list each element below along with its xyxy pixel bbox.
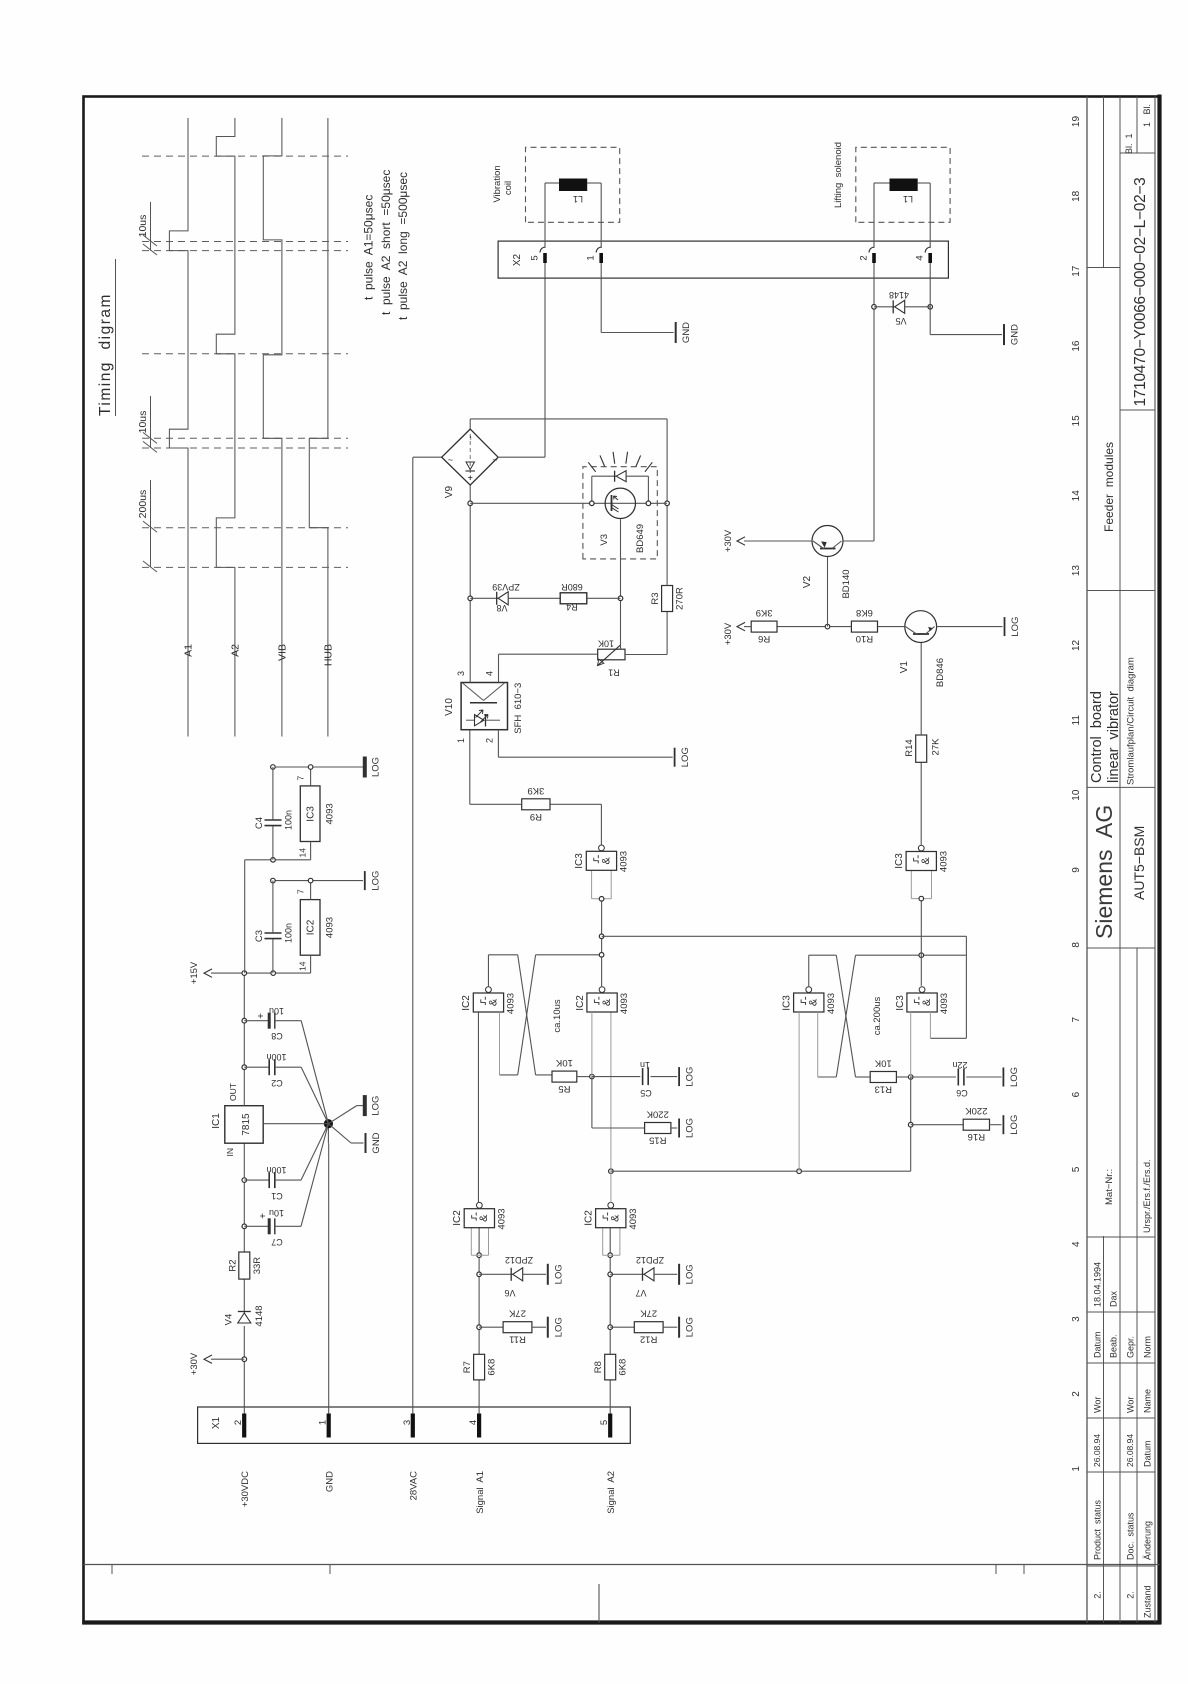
svg-text:IC3: IC3 xyxy=(306,806,317,822)
svg-text:Control board: Control board xyxy=(1089,691,1105,783)
wire RC2 node to G7 input upper xyxy=(910,1012,912,1077)
wire G2 input2 from crossover xyxy=(499,1012,501,1075)
svg-text:27K: 27K xyxy=(640,1308,658,1319)
svg-text:C8: C8 xyxy=(271,1031,283,1041)
wire C7 diagonal to star xyxy=(301,1124,328,1227)
wire R13 to RC junction 2 xyxy=(896,1076,910,1078)
svg-text:~: ~ xyxy=(448,455,453,465)
svg-text:4093: 4093 xyxy=(506,993,517,1014)
svg-text:Bl. 1: Bl. 1 xyxy=(1124,133,1134,154)
capacitor C6 22n to LOG xyxy=(911,1076,956,1078)
svg-text:&: & xyxy=(808,998,820,1006)
svg-text:12: 12 xyxy=(1071,639,1082,651)
svg-text:4093: 4093 xyxy=(325,803,336,824)
potentiometer R1 10K xyxy=(598,649,625,660)
lamp glow rays xyxy=(588,462,595,471)
wire V10 pin4 to R1 top xyxy=(498,654,500,682)
svg-text:IC3: IC3 xyxy=(894,853,905,869)
svg-text:2: 2 xyxy=(1071,1391,1082,1397)
svg-text:OUT: OUT xyxy=(228,1083,238,1101)
svg-text:C7: C7 xyxy=(271,1237,283,1247)
svg-text:200us: 200us xyxy=(137,490,149,519)
svg-text:+30V: +30V xyxy=(723,529,734,552)
svg-text:IC1: IC1 xyxy=(211,1113,222,1129)
nand gate G6 IC3 oscillator2 xyxy=(794,993,824,1012)
wire G7 output to G8 inputs xyxy=(920,899,922,986)
svg-text:6K8: 6K8 xyxy=(618,1359,629,1376)
svg-text:−: − xyxy=(467,435,476,440)
svg-text:GND: GND xyxy=(325,1471,336,1492)
title block column lines xyxy=(1087,1565,1155,1567)
svg-text:+30V: +30V xyxy=(189,1352,200,1375)
svg-text:A2: A2 xyxy=(229,644,241,657)
vibration coil L1 xyxy=(526,147,620,222)
transistor V1 BD846 xyxy=(905,611,937,643)
svg-text:3K9: 3K9 xyxy=(527,785,544,796)
nand gate G2 IC2 oscillator1 xyxy=(473,993,503,1012)
junction C1 tap xyxy=(242,1178,247,1183)
svg-text:LOG: LOG xyxy=(685,1317,696,1337)
capacitor C7 10u xyxy=(244,1225,269,1227)
svg-text:V2: V2 xyxy=(802,575,813,588)
resistor R4 680R xyxy=(560,593,587,604)
svg-text:LOG: LOG xyxy=(370,871,381,891)
svg-text:R5: R5 xyxy=(558,1083,570,1094)
svg-text:IC2: IC2 xyxy=(584,1210,595,1226)
svg-text:6K8: 6K8 xyxy=(487,1359,498,1376)
svg-text:10u: 10u xyxy=(269,1006,284,1016)
wire V1 emitter to LOG xyxy=(937,626,1003,628)
wire G4 output to G2 input xyxy=(477,1012,479,1203)
capacitor C1 100n xyxy=(244,1179,269,1181)
svg-text:4093: 4093 xyxy=(619,851,630,872)
svg-text:Vibration: Vibration xyxy=(492,165,503,202)
svg-text:9: 9 xyxy=(1071,867,1082,873)
svg-text:2: 2 xyxy=(859,255,870,260)
svg-text:+: + xyxy=(466,475,476,480)
svg-text:&: & xyxy=(600,856,612,864)
svg-text:1: 1 xyxy=(318,1420,329,1425)
svg-text:V8: V8 xyxy=(496,603,507,613)
svg-text:4093: 4093 xyxy=(939,993,950,1014)
svg-text:14: 14 xyxy=(298,961,308,971)
svg-text:R4: R4 xyxy=(566,602,578,612)
svg-text:33R: 33R xyxy=(252,1257,263,1275)
svg-text:1710470−Y0066−000−02−L−02−3: 1710470−Y0066−000−02−L−02−3 xyxy=(1132,178,1149,407)
wire Signal A2 xyxy=(609,1380,611,1414)
timing dimension 10us first xyxy=(150,202,152,251)
supply +30V arrow at R6 xyxy=(744,626,751,628)
svg-text:BD846: BD846 xyxy=(935,658,946,687)
nand gate G7 IC3 oscillator2 xyxy=(907,993,937,1012)
voltage regulator IC1 7815 xyxy=(225,1106,263,1144)
svg-text:19: 19 xyxy=(1071,116,1082,128)
svg-text:~: ~ xyxy=(492,455,497,465)
ground GND X2 pin1 xyxy=(675,322,677,343)
svg-text:Mat−Nr.:: Mat−Nr.: xyxy=(1104,1169,1115,1205)
capacitor C2 100n xyxy=(244,1066,269,1068)
wire V10 pin2 to LOG xyxy=(497,730,499,758)
svg-text:C1: C1 xyxy=(271,1191,283,1201)
zener diode V7 ZPD12 to LOG xyxy=(610,1273,644,1275)
svg-text:Wor: Wor xyxy=(1093,1397,1103,1413)
svg-text:4093: 4093 xyxy=(826,993,837,1014)
nand gate G4 IC2 (signal A1 input) xyxy=(471,1254,488,1256)
svg-text:R16: R16 xyxy=(968,1131,985,1142)
svg-text:R7: R7 xyxy=(462,1361,473,1373)
svg-text:LOG: LOG xyxy=(685,1118,696,1138)
svg-text:C4: C4 xyxy=(254,817,265,829)
svg-text:GND: GND xyxy=(681,322,692,343)
wire vibration coil to X2 pin1 xyxy=(587,182,601,184)
zener diode V6 ZPD12 to LOG xyxy=(479,1273,513,1275)
svg-text:27K: 27K xyxy=(508,1308,526,1319)
lifting solenoid L1 xyxy=(856,147,950,222)
svg-text:18.04.1994: 18.04.1994 xyxy=(1093,1262,1103,1307)
svg-text:28VAC: 28VAC xyxy=(409,1471,420,1501)
bypass diode across V3 xyxy=(591,476,593,503)
wire GND line X1.1 to star xyxy=(328,1143,330,1413)
wire X2 pin1 to GND xyxy=(600,278,602,332)
connector X2 pin contacts xyxy=(544,263,546,278)
timing signal A1 xyxy=(169,118,188,737)
wire bridge E vertex to drop xyxy=(469,419,471,429)
svg-text:1: 1 xyxy=(586,255,597,260)
svg-text:R10: R10 xyxy=(856,633,873,644)
svg-text:LOG: LOG xyxy=(680,747,691,767)
svg-text:13: 13 xyxy=(1071,565,1082,577)
wire bridge right vertex drop xyxy=(470,418,667,420)
svg-text:&: & xyxy=(920,857,932,865)
svg-text:2: 2 xyxy=(485,738,495,743)
svg-text:Norm: Norm xyxy=(1143,1336,1153,1358)
svg-text:LOG: LOG xyxy=(553,1317,564,1337)
svg-text:Lifting solenoid: Lifting solenoid xyxy=(833,142,844,208)
wire X2 pin2 to lifting solenoid xyxy=(873,183,875,248)
svg-text:ZPV39: ZPV39 xyxy=(492,582,520,592)
ground LOG IC2 pin7 xyxy=(364,871,366,890)
bridge rectifier V9 xyxy=(442,429,498,485)
wire +30V rail xyxy=(243,1326,245,1414)
svg-text:4093: 4093 xyxy=(325,917,336,938)
svg-text:Änderung: Änderung xyxy=(1143,1521,1153,1560)
timing signal A2 xyxy=(216,118,235,737)
wire R4 to emitter junction xyxy=(587,597,621,599)
svg-text:100n: 100n xyxy=(266,1165,286,1175)
wire G6 input1 from G5 line xyxy=(798,1012,800,1171)
svg-text:LOG: LOG xyxy=(685,1264,696,1284)
wire lifting solenoid to X2 pin4 xyxy=(918,182,931,184)
wire G1 output to R9 xyxy=(600,804,602,844)
svg-text:Siemens AG: Siemens AG xyxy=(1091,805,1117,939)
svg-text:10u: 10u xyxy=(269,1208,284,1218)
svg-text:HUB: HUB xyxy=(322,644,334,666)
svg-text:V7: V7 xyxy=(635,1288,646,1298)
IC power block IC2 4093 pins 14/7 xyxy=(300,900,320,956)
svg-text:4: 4 xyxy=(915,255,926,260)
wire X2 pin2 line xyxy=(873,278,875,307)
svg-text:5: 5 xyxy=(599,1420,610,1425)
crossover diagonal wires osc2 xyxy=(836,955,855,1077)
wire G6 input2 from crossover xyxy=(817,1012,819,1077)
capacitor C8 10u xyxy=(244,1020,269,1022)
svg-text:C6: C6 xyxy=(956,1088,968,1098)
wire IC1 OUT +15V rail xyxy=(243,973,245,1106)
connector X2 box xyxy=(498,241,948,278)
svg-text:5: 5 xyxy=(530,255,541,260)
svg-text:LOG: LOG xyxy=(1009,1067,1020,1087)
svg-text:Datum: Datum xyxy=(1143,1440,1153,1467)
nand gate G5 IC2 (signal A2 input) xyxy=(603,1254,620,1256)
ground star point xyxy=(327,1124,329,1144)
svg-text:Product status: Product status xyxy=(1093,1499,1103,1560)
svg-text:2.: 2. xyxy=(1093,1591,1103,1599)
svg-text:+30VDC: +30VDC xyxy=(240,1471,251,1507)
svg-text:10us: 10us xyxy=(137,411,149,434)
wire R5 to RC junction xyxy=(577,1076,592,1078)
wire RC node to G3 input upper xyxy=(591,1012,593,1077)
ground LOG at star xyxy=(328,1106,356,1124)
wire junction to G3 input lower xyxy=(610,1012,612,1203)
svg-text:V5: V5 xyxy=(895,316,906,326)
svg-text:26.08.94: 26.08.94 xyxy=(1092,1434,1102,1467)
svg-text:IC3: IC3 xyxy=(895,995,906,1011)
svg-text:ca.200us: ca.200us xyxy=(872,996,883,1035)
supply +15V arrow and feed line xyxy=(211,972,311,974)
svg-text:C3: C3 xyxy=(254,930,265,942)
ground GND X2 pin4 xyxy=(1003,324,1005,345)
svg-text:R15: R15 xyxy=(649,1135,666,1146)
resistor R12 27K to LOG xyxy=(610,1326,634,1328)
svg-text:coil: coil xyxy=(503,181,514,195)
svg-text:R13: R13 xyxy=(875,1084,892,1095)
frame bottom thin line xyxy=(1154,97,1156,1623)
svg-text:X1: X1 xyxy=(211,1416,222,1429)
svg-text:4: 4 xyxy=(1071,1241,1082,1247)
resistor R7 6K8 xyxy=(474,1354,485,1380)
svg-text:t pulse A2 long =500μsec: t pulse A2 long =500μsec xyxy=(396,172,410,320)
svg-text:LOG: LOG xyxy=(370,1096,381,1116)
svg-text:2.: 2. xyxy=(1126,1591,1136,1599)
resistor R8 6K8 xyxy=(605,1354,616,1380)
svg-text:IC2: IC2 xyxy=(575,995,586,1011)
svg-text:Feeder modules: Feeder modules xyxy=(1102,442,1116,532)
resistor R2 33R xyxy=(239,1252,250,1279)
svg-text:4093: 4093 xyxy=(497,1208,508,1229)
svg-text:22n: 22n xyxy=(952,1060,967,1070)
svg-text:4148: 4148 xyxy=(889,290,909,300)
wire G8 output to R14 xyxy=(920,762,922,845)
svg-text:4093: 4093 xyxy=(938,851,949,872)
wire X2 pin4 to GND xyxy=(929,278,931,335)
svg-text:100n: 100n xyxy=(284,810,294,830)
svg-text:V4: V4 xyxy=(224,1314,235,1326)
resistor R11 27K to LOG xyxy=(479,1326,503,1328)
svg-text:ZPD12: ZPD12 xyxy=(505,1255,533,1265)
svg-text:10K: 10K xyxy=(555,1057,573,1068)
wire V2 collector to X2 pin2 line xyxy=(843,540,874,542)
svg-text:15: 15 xyxy=(1071,415,1082,427)
svg-text:ZPD12: ZPD12 xyxy=(636,1255,664,1265)
svg-text:Dax: Dax xyxy=(1109,1290,1119,1307)
svg-text:8: 8 xyxy=(1071,942,1082,948)
wire G5 output to junction xyxy=(609,1169,614,1174)
svg-text:220K: 220K xyxy=(965,1105,988,1116)
svg-text:IC2: IC2 xyxy=(306,919,317,935)
svg-text:R14: R14 xyxy=(904,739,915,756)
svg-text:AUT5−BSM: AUT5−BSM xyxy=(1131,826,1147,900)
svg-text:&: & xyxy=(921,998,933,1006)
timing signal HUB xyxy=(309,118,328,737)
wire IC2 pin7 to LOG xyxy=(310,881,312,900)
diode V4 4148 xyxy=(238,1313,251,1323)
svg-text:680R: 680R xyxy=(561,582,583,592)
svg-text:R12: R12 xyxy=(640,1334,657,1345)
connector X1 pins with terminal bars xyxy=(242,1414,246,1438)
svg-text:1n: 1n xyxy=(640,1060,650,1070)
svg-text:L1: L1 xyxy=(903,194,913,204)
svg-text:7815: 7815 xyxy=(241,1113,252,1136)
svg-text:+15V: +15V xyxy=(189,961,200,984)
resistor R16 220K to LOG xyxy=(911,1124,964,1126)
svg-text:Signal A1: Signal A1 xyxy=(475,1471,486,1514)
svg-text:GND: GND xyxy=(371,1132,382,1153)
svg-text:14: 14 xyxy=(1071,490,1082,502)
svg-text:1: 1 xyxy=(456,738,466,743)
wire G5 line to RC2 node xyxy=(910,1077,912,1171)
svg-text:11: 11 xyxy=(1071,715,1082,726)
svg-text:1: 1 xyxy=(1071,1466,1082,1472)
svg-text:SFH 610−3: SFH 610−3 xyxy=(513,683,524,734)
transistor V3 BD649 xyxy=(470,502,667,504)
wire IC3 pin7 to LOG xyxy=(310,767,312,786)
wire R3 right to V3 collector line xyxy=(666,419,668,586)
svg-text:7: 7 xyxy=(296,776,306,781)
nand gate G8 IC3 (output driver) xyxy=(911,898,931,900)
optocoupler V10 SFH 610-3 xyxy=(461,683,507,730)
svg-text:6: 6 xyxy=(1071,1091,1082,1097)
resistor R3 270R xyxy=(662,586,673,612)
resistor R9 3K9 xyxy=(522,799,550,810)
svg-text:+30V: +30V xyxy=(723,622,734,645)
svg-text:Datum: Datum xyxy=(1093,1331,1103,1358)
wire R10 to R6 rail with V2 base tap xyxy=(777,626,851,628)
svg-text:10K: 10K xyxy=(874,1058,892,1069)
svg-text:R11: R11 xyxy=(509,1334,526,1345)
resistor R6 3K9 xyxy=(751,621,777,632)
svg-text:1 Bl.: 1 Bl. xyxy=(1142,104,1152,127)
svg-text:IC3: IC3 xyxy=(782,995,793,1011)
svg-text:+: + xyxy=(258,1213,269,1219)
svg-text:C5: C5 xyxy=(640,1088,652,1098)
svg-text:LOG: LOG xyxy=(370,757,381,777)
svg-text:4093: 4093 xyxy=(628,1208,639,1229)
nand gate G3 IC2 oscillator1 xyxy=(587,993,617,1012)
svg-text:IC2: IC2 xyxy=(452,1210,463,1226)
svg-text:7: 7 xyxy=(1071,1016,1082,1022)
svg-text:3: 3 xyxy=(1071,1316,1082,1322)
resistor R13 10K xyxy=(870,1072,896,1083)
svg-text:Stromlaufplan/Circuit diagram: Stromlaufplan/Circuit diagram xyxy=(1126,657,1137,785)
svg-text:18: 18 xyxy=(1071,190,1082,202)
svg-text:3: 3 xyxy=(456,671,466,676)
wire rail B line to G7 gate (from osc1 output net) xyxy=(602,935,967,937)
svg-text:LOG: LOG xyxy=(553,1264,564,1284)
svg-text:t pulse A1=50μsec: t pulse A1=50μsec xyxy=(362,195,376,300)
svg-text:V1: V1 xyxy=(899,661,910,674)
svg-text:100n: 100n xyxy=(266,1052,286,1062)
crossover rail B segments (osc2) xyxy=(818,1076,837,1078)
svg-text:IC2: IC2 xyxy=(461,995,472,1011)
svg-text:5: 5 xyxy=(1071,1166,1082,1172)
svg-text:VIB: VIB xyxy=(276,644,288,661)
wire C8 diagonal to star xyxy=(301,1021,328,1124)
svg-text:Zustand: Zustand xyxy=(1143,1585,1153,1618)
svg-text:LOG: LOG xyxy=(1010,617,1021,637)
svg-text:10: 10 xyxy=(1071,789,1082,801)
svg-text:Name: Name xyxy=(1143,1389,1153,1413)
svg-text:IC3: IC3 xyxy=(574,853,585,869)
svg-text:ca.10us: ca.10us xyxy=(552,999,563,1033)
svg-text:LOG: LOG xyxy=(1009,1115,1020,1135)
connector X1 box xyxy=(198,1407,631,1443)
wire IC3 pin14 feed from +15V xyxy=(244,860,246,973)
wire V2 base xyxy=(827,557,829,627)
resistor R15 220K to LOG xyxy=(591,1077,593,1128)
dashed enclosure V3 module xyxy=(583,467,657,559)
svg-text:L1: L1 xyxy=(573,194,583,204)
wire G6 output to crossover xyxy=(808,955,810,986)
crossover rail A segments (osc2) xyxy=(809,954,837,956)
nand gate G1 IC3 (inverter to V10) xyxy=(592,898,612,900)
wire V1 collector to R10 xyxy=(878,626,905,628)
wire G5 output down to oscillator2 node xyxy=(611,1170,911,1172)
svg-text:17: 17 xyxy=(1071,265,1082,277)
svg-text:R9: R9 xyxy=(530,811,542,822)
svg-text:3: 3 xyxy=(402,1420,413,1425)
wire bridge S vertex to X2 pin5 xyxy=(498,456,545,458)
svg-text:Urspr./Ers.f./Ers.d.: Urspr./Ers.f./Ers.d. xyxy=(1142,1159,1152,1233)
svg-text:GND: GND xyxy=(1010,324,1021,345)
svg-text:3K9: 3K9 xyxy=(756,607,773,618)
resistor R14 27K xyxy=(916,735,927,762)
wire V3 emitter line to R1 xyxy=(620,519,622,649)
wire G2 output to crossover rail xyxy=(487,955,489,987)
svg-text:14: 14 xyxy=(298,848,308,858)
svg-text:R1: R1 xyxy=(608,668,620,678)
wire R14 to V1 base xyxy=(920,643,922,736)
svg-text:V6: V6 xyxy=(504,1288,515,1298)
supply +30V arrow at X1 xyxy=(211,1358,244,1360)
svg-text:BD140: BD140 xyxy=(841,569,852,598)
svg-text:&: & xyxy=(487,998,499,1006)
wire R9 to V10 pin1 xyxy=(470,803,522,805)
wire IC2 pin14 stub xyxy=(310,955,312,973)
svg-text:&: & xyxy=(478,1214,490,1222)
transistor V2 BD140 xyxy=(812,526,843,557)
svg-text:26.08.94: 26.08.94 xyxy=(1125,1434,1135,1467)
svg-text:Signal A2: Signal A2 xyxy=(606,1471,617,1514)
svg-text:10us: 10us xyxy=(137,215,149,238)
wire 28VAC X1.3 to bridge V9 xyxy=(412,457,414,1413)
svg-text:Timing digram: Timing digram xyxy=(97,293,114,416)
zener diode V8 ZPV39 xyxy=(470,597,498,599)
svg-text:A1: A1 xyxy=(183,644,195,657)
svg-text:linear vibrator: linear vibrator xyxy=(1106,691,1122,783)
svg-text:Gepr.: Gepr. xyxy=(1126,1336,1136,1358)
svg-text:LOG: LOG xyxy=(685,1067,696,1087)
timing dimension 200us xyxy=(150,480,152,567)
